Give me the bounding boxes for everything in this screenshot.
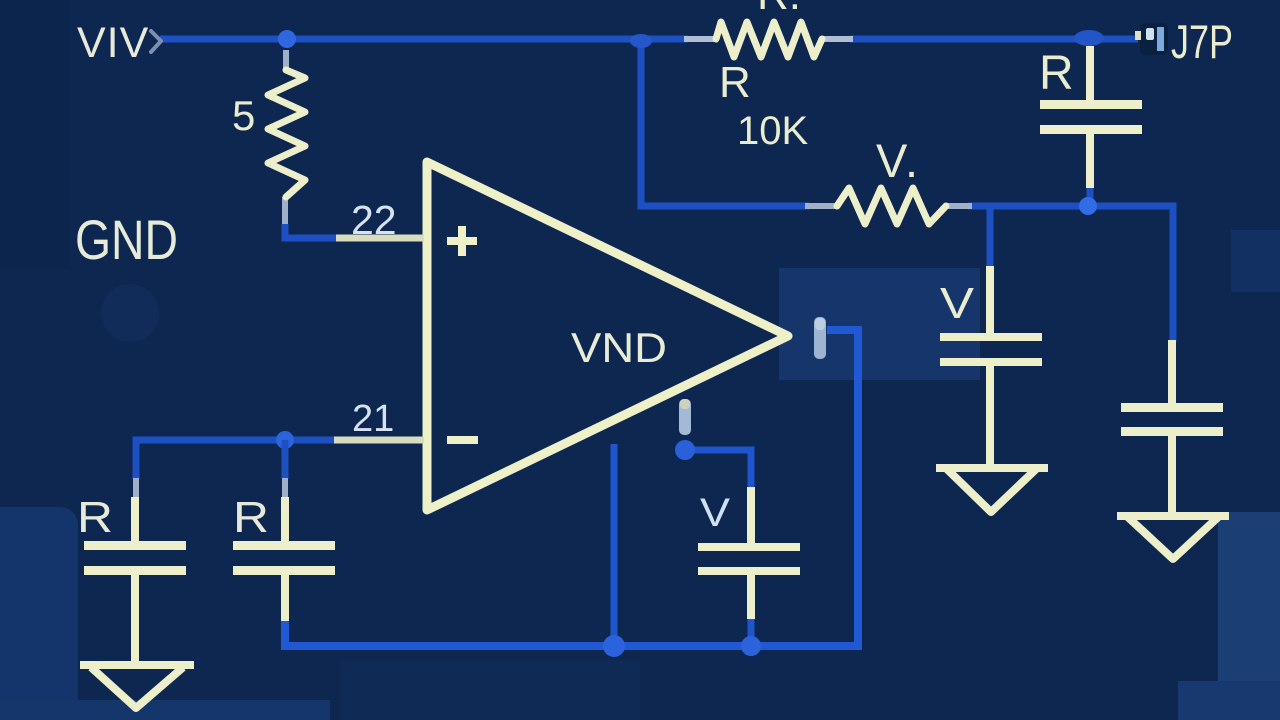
svg-text:5: 5 <box>232 92 255 139</box>
wire: lead down to capacitor V mid <box>987 209 994 268</box>
svg-text:V: V <box>700 491 730 535</box>
op-amp plus sign <box>447 226 477 256</box>
background shade top-left <box>0 0 70 270</box>
junction dot bottom net left <box>603 635 625 657</box>
op-amp minus pin lead <box>334 437 424 444</box>
capacitor right plates <box>1121 403 1223 412</box>
svg-text:R.: R. <box>757 0 801 19</box>
capacitor V bottom lead top <box>747 487 755 543</box>
background mid-bottom panel <box>340 660 640 720</box>
resistor R5 vertical zigzag <box>268 70 305 197</box>
capacitor R top-right lead bottom <box>1086 134 1094 188</box>
resistor V lead stubs <box>805 203 972 209</box>
background right tall panel <box>1218 512 1280 717</box>
wire: top horizontal net VIV <box>160 36 1138 43</box>
junction dot minus net <box>276 431 294 449</box>
capacitor R1 lead top <box>131 497 139 541</box>
wire: bottom V cap lower lead blue part <box>748 617 755 646</box>
svg-text:21: 21 <box>352 398 394 440</box>
background blob circle <box>101 284 159 342</box>
wire: minus input net y440 <box>136 440 334 479</box>
capacitor V mid plates <box>940 333 1042 341</box>
capacitor R2 lead top <box>281 497 289 541</box>
junction dot output <box>675 440 695 460</box>
wire: output stub net <box>685 450 751 489</box>
ground G3 right <box>1121 516 1225 559</box>
wire: bottom net y646 <box>285 330 858 646</box>
ground G2 mid <box>940 468 1044 512</box>
capacitor R2 lead bottom <box>281 575 289 621</box>
capacitor R top-right lead top <box>1086 46 1094 100</box>
background panel at op-amp tip <box>779 268 980 380</box>
wire: vertical from top net down to mid net <box>641 39 809 206</box>
op-amp plus pin lead <box>336 235 424 242</box>
capacitor V bottom plates <box>698 543 800 551</box>
background bottom-left rounded panel <box>0 507 78 720</box>
resistor R top zigzag <box>716 22 822 57</box>
resistor R top lead stubs <box>684 36 853 42</box>
svg-text:R: R <box>77 493 113 542</box>
svg-text:R: R <box>1039 47 1074 100</box>
background top-right band <box>1231 230 1280 292</box>
wire: mid horizontal net y206 <box>968 206 1173 342</box>
resistor V zigzag <box>837 188 946 224</box>
output stub bar <box>679 399 691 435</box>
background bottom strip <box>0 700 330 720</box>
op-amp U1 triangle <box>427 162 788 510</box>
svg-text:V.: V. <box>876 134 920 187</box>
capacitor right lead bottom <box>1168 436 1176 514</box>
background bottom-right panel <box>1178 681 1280 720</box>
wire: plus input net from resistor R5 <box>285 224 336 238</box>
op-amp tip connector bar <box>814 317 826 359</box>
connector icon J7P <box>1140 23 1168 55</box>
capacitor V bottom lead bottom <box>747 575 755 619</box>
capacitor right lead top <box>1168 340 1176 403</box>
capacitor R2 plates <box>233 541 335 550</box>
capacitor R top-right plates <box>1040 100 1142 109</box>
svg-text:R: R <box>233 493 269 542</box>
junction dot mid-right <box>1079 197 1097 215</box>
capacitor V mid lead bottom <box>986 366 994 466</box>
ground G1 left <box>84 665 190 708</box>
junction dot top at resistor R5 <box>278 30 296 48</box>
svg-text:GND: GND <box>75 208 178 271</box>
capacitor R1 left stub <box>133 478 139 497</box>
svg-text:R: R <box>719 58 751 107</box>
capacitor V mid lead top <box>986 266 994 333</box>
svg-text:V: V <box>940 279 975 328</box>
junction blob at vertical tee x641 <box>630 34 652 48</box>
svg-text:10K: 10K <box>737 109 808 153</box>
svg-text:22: 22 <box>351 197 397 243</box>
junction blob top-right <box>1074 30 1104 46</box>
capacitor R1 plates <box>84 541 186 550</box>
wire arrowhead near VIV <box>151 31 161 52</box>
op-amp minus sign <box>447 436 478 444</box>
capacitor R2 blue lead <box>282 440 289 479</box>
junction dot bottom net mid <box>741 636 761 656</box>
wire: vertical stub x614 <box>611 444 618 646</box>
svg-text:VND: VND <box>571 324 667 371</box>
wire: top-right cap to junction blue part <box>1087 186 1094 205</box>
capacitor R2 stub <box>282 478 288 497</box>
svg-text:VIV: VIV <box>77 19 149 67</box>
capacitor R1 lead bottom <box>131 575 139 663</box>
svg-text:J7P: J7P <box>1171 15 1233 68</box>
resistor R5 lead stubs <box>285 50 286 224</box>
